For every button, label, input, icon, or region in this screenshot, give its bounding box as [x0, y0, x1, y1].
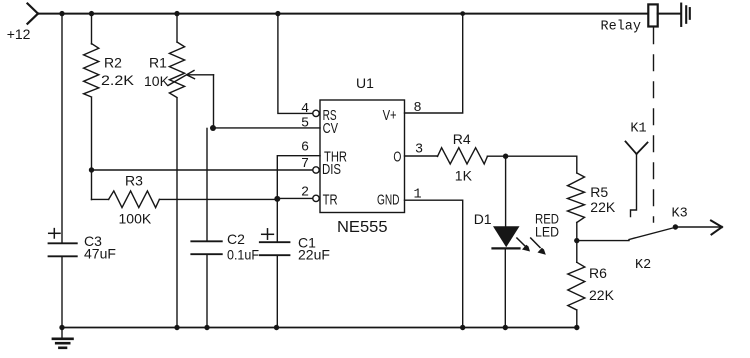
svg-text:K1: K1 — [630, 122, 646, 137]
node wiper/CV — [210, 125, 216, 131]
svg-text:TR: TR — [323, 192, 338, 209]
svg-text:Relay: Relay — [601, 20, 642, 35]
wire R2 bottom to R3 corner — [91, 98, 93, 200]
wire TR (pin2) — [277, 197, 313, 199]
svg-text:O: O — [393, 149, 401, 166]
wire OUT pin3 to R4 — [405, 155, 438, 157]
wire R1 branch top — [176, 14, 178, 42]
resistor R6 — [576, 241, 578, 263]
node R5/R6 junction — [574, 238, 579, 243]
wire wiper down to CV node — [213, 75, 215, 128]
svg-text:8: 8 — [414, 101, 422, 116]
ground symbol (bottom left) — [61, 328, 63, 339]
wire C2 branch down — [206, 128, 208, 241]
svg-text:K2: K2 — [635, 258, 651, 273]
node output junction — [503, 154, 508, 159]
svg-text:R5: R5 — [590, 184, 608, 200]
+12 input connector — [28, 4, 39, 24]
svg-text:U1: U1 — [356, 75, 374, 91]
pin circle TR — [313, 195, 319, 201]
svg-text:7: 7 — [301, 157, 309, 172]
IC U1 (555 timer) — [320, 100, 405, 213]
svg-text:R4: R4 — [453, 131, 471, 147]
wire RS branch from top rail — [278, 14, 313, 114]
svg-text:0.1uF: 0.1uF — [227, 247, 259, 263]
pin circle RS — [313, 110, 319, 116]
node DIS junction — [89, 167, 94, 172]
svg-text:10K: 10K — [144, 73, 170, 89]
svg-text:22K: 22K — [589, 287, 615, 303]
svg-text:4: 4 — [301, 102, 309, 117]
pin circle DIS — [313, 167, 319, 173]
resistor R3 — [92, 198, 109, 200]
svg-text:V+: V+ — [383, 107, 397, 124]
svg-text:1: 1 — [414, 188, 422, 203]
svg-text:100K: 100K — [119, 211, 152, 227]
wire left branch x62 (to C3) — [61, 14, 63, 244]
wire LED branch — [505, 156, 507, 226]
svg-text:DIS: DIS — [322, 161, 341, 178]
node top rail dots — [59, 11, 64, 16]
svg-text:2: 2 — [301, 185, 309, 200]
wire R4 to R5 branch — [487, 155, 576, 157]
capacitor C3 — [49, 243, 77, 256]
wire K3 output arrow — [675, 226, 721, 228]
svg-text:R3: R3 — [125, 173, 143, 189]
svg-text:22K: 22K — [590, 199, 616, 215]
wire K2 pole — [577, 240, 629, 242]
wire DIS (pin7) — [92, 169, 313, 171]
dashed relay actuation line — [653, 28, 655, 222]
LED emission arrows — [517, 238, 546, 255]
wire relay to chassis ground — [658, 13, 680, 15]
capacitor C2 — [191, 241, 222, 254]
wire R1 bottom to ground rail — [176, 98, 178, 327]
svg-text:R6: R6 — [589, 265, 607, 281]
svg-text:R1: R1 — [149, 55, 167, 71]
wire bottom ground rail — [62, 327, 577, 329]
wire V+ (pin8) — [405, 14, 463, 113]
LED D1 — [493, 226, 520, 247]
resistor R4 — [438, 148, 488, 164]
relay coil — [648, 4, 657, 26]
svg-text:CV: CV — [323, 120, 338, 137]
svg-text:LED: LED — [535, 223, 559, 239]
node bottom rail dots — [59, 325, 64, 330]
svg-text:22uF: 22uF — [298, 247, 330, 263]
wire C1 branch — [276, 199, 278, 242]
resistor R1 (pot) — [169, 42, 184, 98]
svg-text:K3: K3 — [672, 207, 688, 222]
svg-text:6: 6 — [301, 141, 309, 156]
contact K1 — [626, 142, 648, 155]
wire top rail — [38, 13, 648, 15]
svg-text:1K: 1K — [455, 168, 473, 184]
svg-text:GND: GND — [377, 192, 400, 209]
svg-text:+12: +12 — [7, 26, 31, 42]
node TR junction — [274, 196, 280, 202]
wire R2 branch top — [91, 14, 93, 44]
R1 wiper arrow — [168, 71, 194, 86]
wire THR (pin6) — [277, 156, 320, 199]
svg-text:C2: C2 — [227, 231, 245, 247]
svg-text:5: 5 — [301, 117, 309, 132]
capacitor C1 — [260, 242, 290, 255]
svg-text:D1: D1 — [474, 211, 492, 227]
wire GND (pin1) — [405, 200, 463, 327]
svg-text:R2: R2 — [104, 55, 122, 71]
resistor R5 — [568, 173, 585, 223]
wire CV (pin5) — [213, 127, 320, 129]
svg-text:NE555: NE555 — [337, 219, 388, 236]
svg-text:3: 3 — [415, 143, 423, 158]
wire R5 branch — [576, 156, 578, 173]
switch arm K2 — [629, 227, 675, 239]
node K3 contact — [673, 224, 678, 229]
svg-text:2.2K: 2.2K — [101, 72, 135, 88]
chassis ground (right) — [681, 4, 690, 26]
resistor R2 — [84, 44, 99, 97]
svg-text:47uF: 47uF — [84, 246, 116, 262]
